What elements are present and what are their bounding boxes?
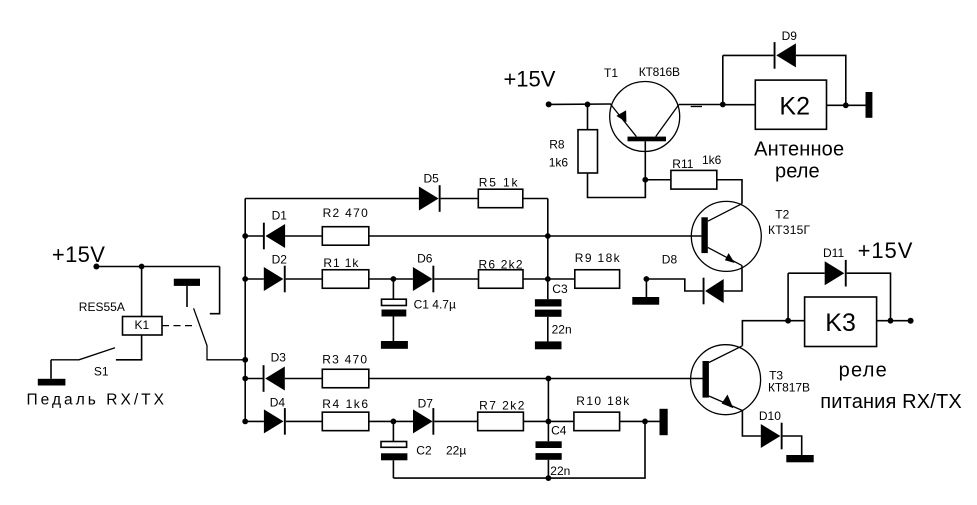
node row5 C4 cross [546, 419, 552, 425]
resistor R1 [322, 270, 369, 289]
wire T1 collector to K2 [679, 104, 723, 106]
node bus row D4 [242, 419, 248, 425]
node bus row D3 [242, 376, 248, 382]
svg-text:K3: K3 [825, 309, 856, 337]
capacitor C2 [381, 421, 407, 478]
diode D3 [263, 365, 285, 392]
wire relay moving lever [194, 308, 246, 360]
wire K2 right lead [827, 104, 866, 106]
wire D11 cathode lead [847, 273, 891, 321]
svg-text:R8: R8 [549, 138, 565, 152]
wire R5 right [523, 198, 548, 200]
svg-text:D2: D2 [272, 253, 288, 267]
wire row4 left [245, 378, 263, 380]
relay fixed contact bar [174, 279, 200, 286]
wire K1 coil top [141, 267, 143, 317]
wire C4 branch vertical [547, 379, 549, 442]
svg-text:реле: реле [839, 360, 887, 382]
node K3 right junction [888, 318, 894, 324]
diode D1 [263, 223, 285, 250]
wire D8 to T2 emitter [724, 266, 742, 291]
wire +15V to T1 emitter [549, 103, 611, 105]
diode D9 [774, 42, 796, 69]
node row4 C4 branch [546, 376, 552, 382]
node bus row D2 [242, 276, 248, 282]
node C2 tap [391, 419, 397, 425]
ground below C1 [381, 341, 408, 349]
svg-text:C4: C4 [551, 424, 567, 438]
resistor R5 [478, 189, 523, 208]
resistor R7 [478, 412, 524, 431]
node right bus row2 [545, 233, 551, 239]
svg-text:22n: 22n [550, 464, 570, 478]
wire right bus vertical to C3 [547, 199, 549, 300]
svg-text:D7: D7 [418, 396, 434, 410]
capacitor C1 [382, 279, 407, 341]
wire D6 to R6 [434, 278, 478, 280]
diode D10 [761, 423, 783, 450]
wire row3 left [245, 278, 264, 280]
wire K2 left lead [723, 104, 756, 106]
svg-text:D3: D3 [271, 350, 287, 364]
wire D9 left riser [722, 55, 724, 104]
svg-text:КТ817В: КТ817В [768, 381, 810, 395]
resistor R2 [322, 227, 369, 246]
diode D5 [419, 185, 441, 212]
svg-text:D5: D5 [424, 172, 440, 186]
wire D2 to R1 [286, 278, 323, 280]
svg-text:D11: D11 [823, 246, 844, 260]
diode D4 [264, 408, 286, 435]
svg-text:T2: T2 [775, 208, 789, 222]
resistor R8 [578, 130, 598, 173]
node bus switch wire [242, 357, 248, 363]
resistor R11 [671, 170, 717, 189]
wire R11 right to T2 collector [717, 180, 742, 204]
svg-text:+15V: +15V [52, 242, 105, 267]
svg-text:R3 470: R3 470 [322, 353, 367, 367]
wire R8 top lead [587, 104, 589, 129]
wire S1 to ground [50, 360, 52, 379]
svg-text:питания RX/TX: питания RX/TX [820, 391, 961, 413]
label C2 22u [416, 444, 466, 458]
svg-text:D4: D4 [270, 396, 286, 410]
svg-text:C1 4.7µ: C1 4.7µ [414, 298, 456, 312]
node right output terminal [908, 318, 914, 324]
wire D1 to R2 [285, 235, 322, 237]
wire K3 left lead to T3 collector [742, 321, 804, 346]
wire R7 to R10 [523, 420, 574, 422]
resistor R10 [574, 412, 620, 431]
diode D11 [825, 260, 847, 287]
transistor T3 [691, 345, 761, 415]
resistor R6 [479, 270, 524, 289]
ground below D10 [786, 455, 813, 462]
node bus row D1 [242, 233, 248, 239]
wire D9 cathode lead [796, 55, 846, 105]
wire ground stub [645, 279, 647, 297]
svg-text:R9 18k: R9 18k [575, 251, 621, 265]
node +15V left terminal [93, 264, 99, 270]
wire T3 emitter to D10 [742, 411, 760, 437]
svg-text:22µ: 22µ [446, 444, 466, 458]
node right bus row3 [545, 276, 551, 282]
svg-text:1k6: 1k6 [702, 153, 722, 167]
node K3 left junction [785, 318, 791, 324]
wire D9 anode lead [723, 54, 774, 56]
transistor T1 [610, 82, 680, 198]
resistor R4 [322, 412, 369, 431]
wire R4 to D7 [369, 420, 413, 422]
diode D2 [264, 266, 286, 293]
node T1 base junction [642, 177, 648, 183]
node K2 right junction [843, 102, 849, 108]
svg-text:+15V: +15V [504, 67, 556, 92]
wire D5 to R5 [441, 198, 479, 200]
svg-text:R5 1k: R5 1k [479, 176, 519, 190]
wire R9 right jog to D8 [646, 279, 702, 291]
wire bottom return [393, 421, 645, 478]
relay K2 [755, 80, 826, 129]
svg-text:22n: 22n [552, 323, 572, 337]
wire D10 cathode to ground [783, 436, 802, 455]
terminal bar right of R10 [660, 409, 668, 435]
svg-text:R4 1k6: R4 1k6 [322, 397, 368, 411]
wire row4 right to T3 base [369, 378, 703, 380]
svg-text:R11: R11 [672, 157, 693, 171]
wire left bus vertical [244, 199, 246, 422]
wire D7 to R7 [434, 420, 477, 422]
node R9 ground junction [644, 276, 650, 282]
resistor R9 [575, 270, 620, 289]
node K2 left junction [720, 102, 726, 108]
node R8 top tap [585, 102, 591, 108]
svg-text:D10: D10 [759, 409, 781, 423]
wire D4 to R4 [286, 420, 323, 422]
svg-text:КТ816В: КТ816В [639, 65, 680, 79]
wire base node to R11 [645, 179, 671, 181]
svg-text:КТ315Г: КТ315Г [768, 223, 811, 237]
svg-text:+15V: +15V [858, 238, 913, 263]
diode D6 [413, 266, 434, 293]
wire dashed relay link [162, 325, 197, 327]
wire row2 right to T2 base [369, 235, 702, 237]
diode D8 [703, 278, 724, 305]
svg-text:D6: D6 [417, 252, 433, 266]
svg-text:D8: D8 [662, 253, 678, 267]
diode D7 [413, 408, 434, 435]
svg-text:K2: K2 [779, 92, 810, 120]
wire K1 coil bottom [116, 335, 142, 360]
wire R10 right [620, 420, 660, 422]
svg-text:R6 2k2: R6 2k2 [479, 258, 523, 272]
svg-text:R1 1k: R1 1k [323, 256, 359, 270]
wire R6 right to R9 [523, 278, 575, 280]
transistor T2 [691, 201, 761, 271]
svg-text:D9: D9 [782, 29, 798, 43]
svg-text:реле: реле [775, 161, 820, 183]
relay K3 [805, 297, 877, 347]
svg-text:D1: D1 [272, 209, 288, 223]
ground below C3 [535, 341, 562, 349]
svg-text:C3: C3 [552, 282, 568, 296]
svg-text:RES55A: RES55A [79, 300, 125, 314]
wire D3 to R3 [285, 378, 323, 380]
svg-text:R7 2k2: R7 2k2 [479, 399, 525, 413]
wire R1 to D6 [369, 278, 413, 280]
capacitor C3 [535, 299, 562, 341]
svg-text:T1: T1 [604, 66, 618, 80]
svg-text:S1: S1 [94, 365, 109, 379]
wire down to relay fixed throw [210, 267, 220, 314]
svg-text:Антенное: Антенное [754, 139, 844, 161]
wire row2 left [245, 235, 263, 237]
wire +15V rail [96, 266, 219, 268]
ground S1 [38, 379, 66, 386]
svg-text:K1: K1 [135, 318, 150, 332]
node R10 right junction [642, 419, 648, 425]
svg-text:1k6: 1k6 [549, 156, 569, 170]
svg-text:Педаль RX/TX: Педаль RX/TX [27, 392, 168, 409]
switch S1 lever [51, 348, 115, 360]
wire relay fixed contact lead [186, 286, 188, 307]
node C1 tap [391, 276, 397, 282]
svg-text:R2 470: R2 470 [323, 206, 369, 220]
wire row5 left [245, 420, 264, 422]
relay K1 [123, 317, 163, 336]
wire R8 bottom loop to base node [588, 173, 646, 198]
wire D11 anode lead [788, 272, 825, 274]
svg-text:C2: C2 [416, 444, 432, 458]
wire collector artifact segment [691, 106, 702, 108]
node C4 bottom [546, 475, 552, 481]
node +15V top terminal [546, 101, 552, 107]
wire D11 left riser [787, 273, 789, 321]
wire row1 left [245, 198, 419, 200]
capacitor C4 [536, 441, 562, 478]
resistor R3 [322, 369, 369, 388]
node K1 coil top junction [139, 264, 145, 270]
terminal bar right of K2 [866, 92, 873, 118]
ground below R9 [632, 297, 659, 305]
wire K3 right lead [877, 320, 911, 322]
